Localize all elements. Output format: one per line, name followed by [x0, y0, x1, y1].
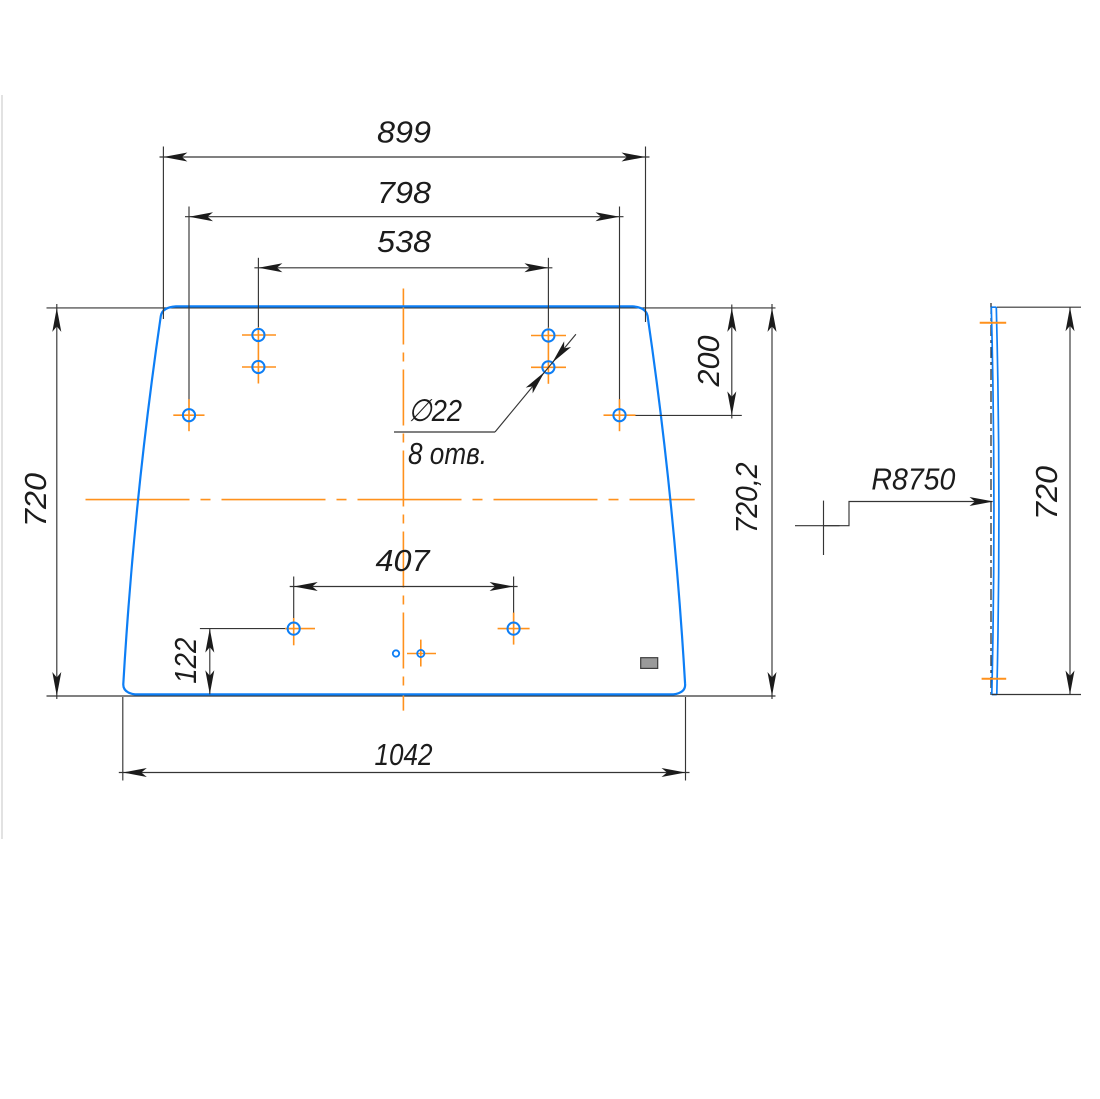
- side bottom extension: [992, 694, 1081, 696]
- small hole E2: [417, 650, 424, 657]
- svg-text:720: 720: [1029, 466, 1064, 520]
- hole D1 crosshair: [285, 618, 315, 645]
- holes C1 C2 crosshairs (538 right column): [531, 328, 566, 384]
- svg-text:122: 122: [168, 638, 203, 684]
- hole A1 crosshair: [173, 399, 204, 431]
- svg-text:407: 407: [376, 543, 432, 578]
- hole A2 crosshair: [604, 399, 636, 431]
- holes B1 B2 crosshairs (538 left column): [242, 327, 276, 384]
- svg-text:720,2: 720,2: [729, 463, 764, 534]
- leader Ø22 8 отв.: [394, 334, 576, 471]
- hole A1 (798 left): [183, 409, 195, 421]
- bottom extension line (720 / 720,2): [47, 695, 776, 697]
- svg-text:R8750: R8750: [871, 462, 955, 497]
- hole D2 (407 right): [507, 623, 519, 635]
- hole C2: [542, 361, 554, 373]
- glass outline (front view): [123, 306, 685, 694]
- side orange ticks: [980, 323, 1007, 679]
- svg-text:1042: 1042: [375, 737, 433, 772]
- dimension 720,2 (right): [771, 304, 773, 699]
- dimension 538: [254, 267, 552, 269]
- svg-text:200: 200: [691, 336, 726, 388]
- svg-text:798: 798: [377, 175, 432, 210]
- hole B1: [252, 329, 264, 341]
- dimension 407: [290, 586, 518, 588]
- dimension 798: [185, 216, 624, 218]
- hole D2 crosshair: [498, 613, 530, 645]
- hole C1: [542, 329, 554, 341]
- dimension 720 (side): [1069, 307, 1071, 694]
- top extension line (720 / 720,2): [47, 307, 776, 309]
- centerline vertical (front view): [402, 289, 404, 711]
- svg-text:∅22: ∅22: [408, 393, 462, 428]
- svg-text:538: 538: [377, 224, 432, 259]
- dimension 1042: [119, 772, 690, 774]
- R8750 leader: [795, 462, 994, 556]
- page border line: [1, 95, 3, 839]
- hole A2 (798 right): [613, 409, 625, 421]
- side top extension: [997, 306, 1081, 308]
- side glass profile: [991, 307, 999, 694]
- small hole E2 crosshair: [407, 640, 436, 667]
- dimension 122: [200, 628, 294, 630]
- small hole E1: [393, 650, 399, 656]
- gray mark (stamp): [641, 658, 658, 669]
- dimension 899: [160, 156, 650, 158]
- side centerline (dash-dot): [990, 303, 992, 699]
- hole B2: [252, 361, 264, 373]
- hole D1 (407 left): [288, 623, 300, 635]
- svg-text:8 отв.: 8 отв.: [408, 436, 487, 471]
- svg-text:720: 720: [18, 473, 53, 527]
- centerline horizontal (front view): [86, 499, 695, 501]
- dimension 200: [731, 305, 733, 419]
- svg-text:899: 899: [377, 115, 431, 150]
- dimension 720 (left): [56, 304, 58, 699]
